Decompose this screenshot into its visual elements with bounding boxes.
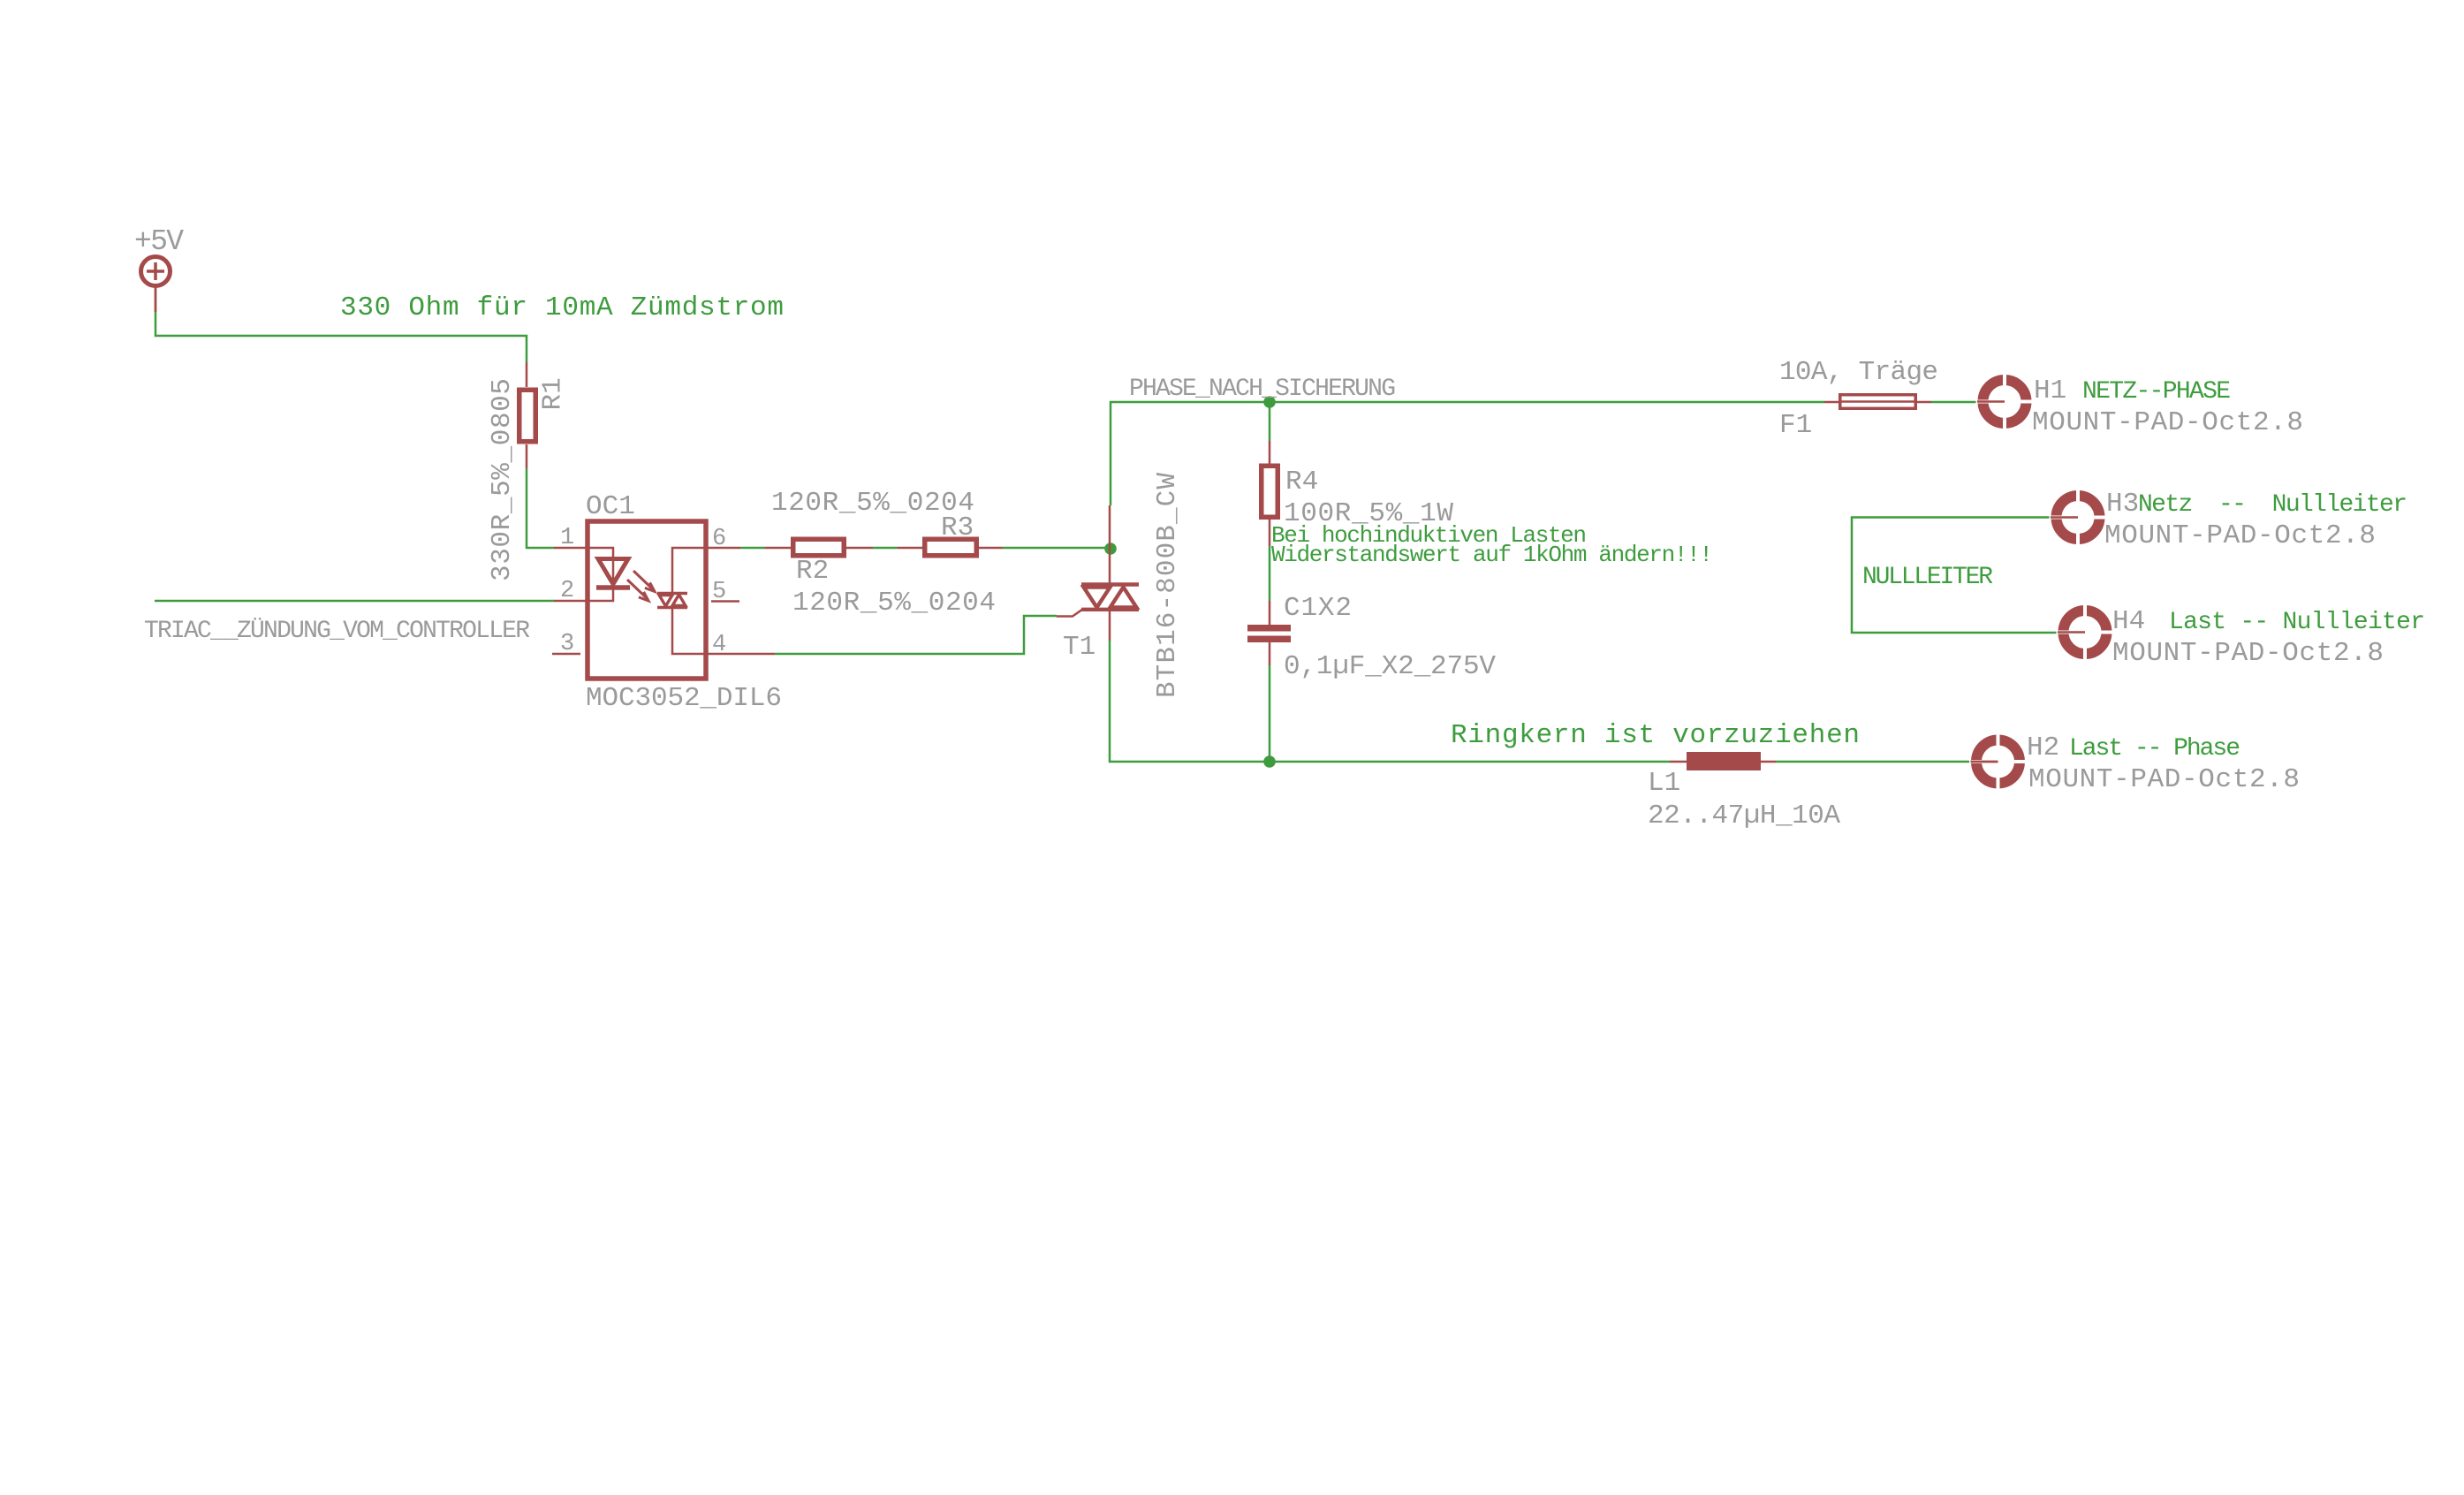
svg-text:MOUNT-PAD-Oct2.8: MOUNT-PAD-Oct2.8 [2032, 407, 2303, 438]
junction node PHASE_NACH_SICHERUNG at R4 branch [1263, 396, 1276, 408]
svg-text:L1: L1 [1648, 768, 1680, 799]
pin 1 stub [554, 547, 590, 550]
svg-text:H3: H3 [2106, 489, 2139, 520]
wire R3 to junction node [1003, 547, 1111, 550]
svg-text:3: 3 [560, 631, 574, 657]
resistor R4 [1262, 441, 1278, 546]
op-amp / optocoupler OC1 MOC3052_DIL6 [552, 521, 775, 679]
capacitor C1X2 [1247, 601, 1291, 665]
svg-text:NETZ--PHASE: NETZ--PHASE [2082, 378, 2231, 406]
junction node at triac MT2 / R3 [1104, 543, 1117, 555]
svg-text:H1: H1 [2034, 376, 2066, 406]
power +5V supply symbol [141, 257, 171, 313]
svg-text:10A, Träge: 10A, Träge [1779, 357, 1938, 388]
wire R4 to C1 [1269, 546, 1271, 601]
svg-text:TRIAC__ZÜNDUNG_VOM_CONTROLLER: TRIAC__ZÜNDUNG_VOM_CONTROLLER [144, 617, 530, 645]
wire +5V net from supply to R1 [155, 312, 527, 362]
svg-text:+5V: +5V [134, 225, 184, 258]
svg-text:H4: H4 [2112, 606, 2145, 637]
resistor R3 [898, 539, 1003, 556]
svg-text:Last -- Phase: Last -- Phase [2069, 735, 2240, 763]
wire junction to R4 branch top [1269, 402, 1271, 441]
wire R1 to opto pin 1 [527, 468, 554, 548]
pad H1 MOUNT-PAD-Oct2.8 [1976, 373, 2034, 430]
wire fuse to pad H1 [1931, 401, 1977, 404]
pin 5 stub [711, 600, 739, 603]
LED inside OC1 [590, 548, 613, 588]
svg-text:330 Ohm für 10mA Zümdstrom: 330 Ohm für 10mA Zümdstrom [340, 292, 784, 323]
svg-text:2: 2 [560, 578, 574, 604]
svg-text:330R_5%_0805: 330R_5%_0805 [487, 378, 518, 581]
svg-text:Widerstandswert auf 1kOhm ände: Widerstandswert auf 1kOhm ändern!!! [1271, 542, 1713, 568]
fuse F1 [1824, 395, 1931, 409]
wire C1 to bottom net [1269, 665, 1271, 762]
svg-text:MOC3052_DIL6: MOC3052_DIL6 [586, 683, 782, 714]
wire opto pin 4 to triac gate [775, 616, 1057, 654]
pad H2 MOUNT-PAD-Oct2.8 [1969, 733, 2027, 791]
wire opto pin 6 to R2 [740, 547, 765, 550]
junction node bottom net at C1 branch [1263, 755, 1276, 768]
pin 3 stub [552, 653, 580, 656]
transistor / triac T1 BTB16-800B_CW [1057, 505, 1139, 641]
svg-text:5: 5 [712, 579, 726, 605]
pin 6 stub [703, 547, 740, 550]
svg-text:0,1µF_X2_275V: 0,1µF_X2_275V [1284, 651, 1496, 682]
wire PHASE_NACH_SICHERUNG from triac node up and right to fuse [1111, 402, 1824, 505]
svg-text:120R_5%_0204: 120R_5%_0204 [792, 588, 996, 618]
svg-text:F1: F1 [1779, 410, 1812, 441]
resistor R1 [519, 362, 536, 468]
pad H4 MOUNT-PAD-Oct2.8 [2057, 603, 2114, 661]
svg-text:1: 1 [560, 525, 574, 551]
resistor R2 [765, 539, 873, 556]
wire R2 to R3 [873, 547, 898, 550]
wire triac MT1 down and right to L1 [1110, 641, 1670, 762]
svg-text:R1: R1 [538, 377, 569, 410]
svg-text:R3: R3 [941, 512, 974, 543]
svg-text:4: 4 [712, 632, 726, 658]
svg-text:Netz -- Nullleiter: Netz -- Nullleiter [2138, 491, 2407, 519]
svg-text:MOUNT-PAD-Oct2.8: MOUNT-PAD-Oct2.8 [2104, 520, 2376, 551]
svg-text:BTB16-800B_CW: BTB16-800B_CW [1152, 473, 1183, 698]
svg-text:PHASE_NACH_SICHERUNG: PHASE_NACH_SICHERUNG [1129, 376, 1396, 403]
triac gate lead [1057, 610, 1082, 617]
svg-text:MOUNT-PAD-Oct2.8: MOUNT-PAD-Oct2.8 [2028, 764, 2300, 795]
svg-text:OC1: OC1 [586, 491, 635, 522]
photo-triac inside OC1 [657, 548, 703, 654]
svg-text:MOUNT-PAD-Oct2.8: MOUNT-PAD-Oct2.8 [2112, 638, 2384, 669]
pin 4 stub [703, 653, 775, 656]
svg-text:T1: T1 [1063, 632, 1096, 663]
inductor L1 [1670, 752, 1776, 770]
svg-text:R2: R2 [796, 556, 829, 587]
svg-text:22..47µH_10A: 22..47µH_10A [1648, 801, 1840, 831]
pin 2 stub [554, 600, 590, 603]
svg-text:6: 6 [712, 526, 726, 552]
wire L1 to pad H2 [1776, 761, 1971, 763]
svg-text:R4: R4 [1285, 467, 1318, 497]
wire TRIAC__ZUENDUNG_VOM_CONTROLLER to opto pin 2 [155, 600, 554, 603]
pad H3 MOUNT-PAD-Oct2.8 [2050, 489, 2107, 546]
svg-text:H2: H2 [2027, 732, 2059, 763]
wire NULLLEITER H3 branch [1852, 518, 2058, 634]
svg-text:C1X2: C1X2 [1284, 593, 1352, 624]
svg-text:Ringkern ist vorzuziehen: Ringkern ist vorzuziehen [1451, 720, 1860, 751]
svg-text:NULLLEITER: NULLLEITER [1862, 564, 1993, 591]
svg-text:Last -- Nullleiter: Last -- Nullleiter [2169, 609, 2425, 636]
light arrows inside OC1 [627, 571, 655, 601]
